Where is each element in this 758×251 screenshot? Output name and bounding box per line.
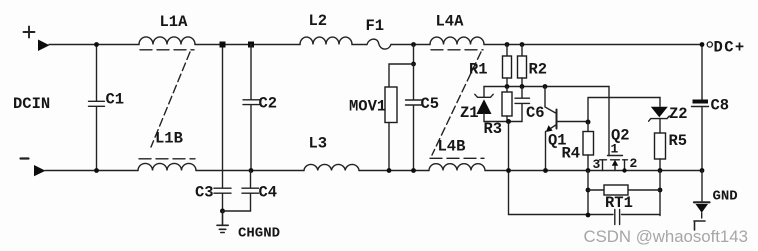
capacitor C5 xyxy=(406,64,422,171)
choke core dashes (under L4A) xyxy=(431,49,483,51)
node (RT1 right) xyxy=(658,188,663,193)
svg-text:C5: C5 xyxy=(421,95,440,113)
node (R1 top) xyxy=(505,42,510,47)
svg-text:R4: R4 xyxy=(562,145,581,163)
node (222 top) xyxy=(220,42,226,48)
wire line B (base to Z2) xyxy=(588,98,660,122)
node (x508 rail crossing) xyxy=(506,168,511,173)
inductor L3 xyxy=(304,164,359,170)
varistor MOV1 xyxy=(385,87,397,123)
resistor R2 xyxy=(521,45,523,57)
inductor L4A xyxy=(430,37,484,44)
node (Q2 drain rail) xyxy=(622,168,626,172)
capacitor (series, bypass wire) xyxy=(615,210,660,225)
diode GND port xyxy=(701,171,703,203)
svg-text:L1A: L1A xyxy=(160,13,189,31)
svg-text:1: 1 xyxy=(611,142,619,157)
svg-text:C6: C6 xyxy=(526,104,545,122)
terminal DC+ xyxy=(707,42,712,47)
inductor L4B xyxy=(429,164,485,171)
node (RT1 left) xyxy=(586,188,591,193)
svg-text:R3: R3 xyxy=(484,120,503,138)
chassis ground CHGND xyxy=(217,211,228,233)
node (R4 rail) xyxy=(586,168,591,173)
terminal + (plus sign) xyxy=(24,27,35,38)
wire RT1 branch verticals xyxy=(588,171,660,216)
wire MOV1 bottom xyxy=(388,123,390,171)
node (C1 top) xyxy=(94,42,99,47)
capacitor C1 xyxy=(89,45,105,171)
resistor R4 xyxy=(587,122,589,132)
wire line A corner to Q2 gate xyxy=(608,87,610,156)
svg-text:L4B: L4B xyxy=(438,138,466,156)
node (R2 bottom on line A) xyxy=(520,84,525,89)
node (R3 bottom) xyxy=(506,119,511,124)
wire RT1 row xyxy=(588,189,660,191)
terminal - (minus sign) xyxy=(21,157,29,159)
resistor R3 xyxy=(506,87,508,93)
svg-text:C3: C3 xyxy=(195,184,214,202)
inductor L1A xyxy=(139,37,195,45)
wire R3 branch down xyxy=(509,122,614,215)
node (Q1 emitter rail) xyxy=(543,168,548,173)
svg-text:L4A: L4A xyxy=(436,13,465,31)
wire DC+ lead xyxy=(701,45,703,100)
svg-text:CHGND: CHGND xyxy=(238,226,280,242)
inductor L1B xyxy=(138,163,196,170)
svg-text:3: 3 xyxy=(593,157,601,172)
node (C8 rail end) xyxy=(700,168,705,173)
node (R5 rail) xyxy=(658,168,663,173)
svg-text:C8: C8 xyxy=(711,97,730,115)
wire top rail xyxy=(49,44,702,46)
node (bypass at 588) xyxy=(586,213,591,218)
node (MOV1 rail) xyxy=(387,168,392,173)
node (C3 bottom junction) xyxy=(220,209,225,214)
svg-text:C2: C2 xyxy=(259,95,278,113)
svg-text:2: 2 xyxy=(630,156,638,171)
wire C5 branch xyxy=(413,45,415,65)
capacitor C2 xyxy=(243,45,260,171)
svg-text:Z2: Z2 xyxy=(669,105,688,123)
capacitor C3 xyxy=(214,171,231,212)
fuse F1 xyxy=(367,39,391,49)
node (C2 top) xyxy=(248,42,254,48)
zener Z2 xyxy=(659,98,661,107)
svg-text:R1: R1 xyxy=(469,61,488,79)
svg-text:L2: L2 xyxy=(309,12,328,30)
resistor R1 xyxy=(506,45,508,57)
node (F1 out / MOV branch) xyxy=(411,42,416,47)
choke core dashes (above L4B) xyxy=(430,157,484,159)
wire bottom rail xyxy=(45,170,702,172)
svg-text:C1: C1 xyxy=(106,91,125,109)
node (C5 rail) xyxy=(411,168,416,173)
wire node line (Z1-R3-C6 bottoms) xyxy=(484,121,522,123)
choke coupling diagonal (L4) xyxy=(432,52,481,155)
zener Z1 xyxy=(475,87,493,98)
node (R1 bottom on line A) xyxy=(505,84,510,89)
node (R2 top) xyxy=(520,42,525,47)
choke core dashes (above L1B) xyxy=(139,158,195,160)
terminal + arrowhead xyxy=(38,40,50,52)
mosfet Q2 xyxy=(608,155,623,157)
wire vertical x=222 (rail to rail) xyxy=(222,45,224,171)
wire C4 bottom link xyxy=(223,210,251,212)
svg-text:C4: C4 xyxy=(259,184,278,202)
choke core dashes (under L1A) xyxy=(140,49,194,51)
node (C2 bottom / rail) xyxy=(249,168,254,173)
svg-text:CSDN @whaosoft143: CSDN @whaosoft143 xyxy=(584,227,748,246)
capacitor C4 xyxy=(242,171,259,212)
node (DC+ junction) xyxy=(700,42,705,47)
svg-text:F1: F1 xyxy=(366,17,385,35)
wire MOV link xyxy=(389,64,414,87)
node (C1 bottom) xyxy=(94,168,99,173)
capacitor C8 xyxy=(693,100,709,104)
inductor L2 xyxy=(300,37,352,44)
svg-text:GND: GND xyxy=(713,189,738,205)
svg-text:L1B: L1B xyxy=(155,130,183,148)
svg-text:DC+: DC+ xyxy=(714,39,746,57)
terminal - arrowhead xyxy=(34,165,46,176)
transistor Q1 xyxy=(543,84,548,89)
thermistor RT1 xyxy=(604,185,628,195)
capacitor C6 xyxy=(515,87,530,122)
resistor R5 xyxy=(655,133,666,159)
svg-text:Z1: Z1 xyxy=(460,104,479,122)
svg-text:R2: R2 xyxy=(529,61,548,79)
choke coupling diagonal (L1) xyxy=(151,52,190,147)
svg-text:MOV1: MOV1 xyxy=(349,98,386,116)
svg-text:DCIN: DCIN xyxy=(13,95,50,113)
svg-text:R5: R5 xyxy=(669,132,688,150)
svg-text:L3: L3 xyxy=(309,135,328,153)
wire node line A xyxy=(484,86,609,88)
node (Q1 base / R4 top) xyxy=(586,120,591,125)
node (MOV tee) xyxy=(411,62,416,67)
